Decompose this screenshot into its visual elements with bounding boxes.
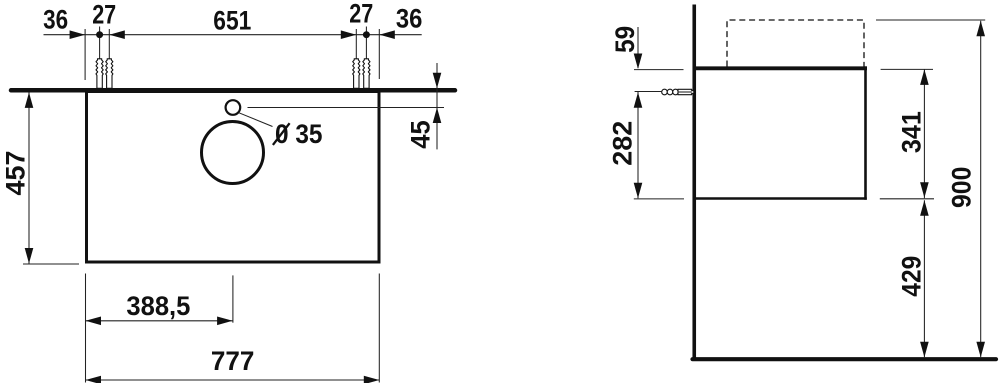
extension line dowel 3 bbox=[355, 29, 357, 77]
wall dowel rings bbox=[662, 89, 668, 95]
arrow 45 top bbox=[433, 73, 442, 89]
extension line left cabinet edge bbox=[84, 29, 86, 80]
ext line cabinet bottom left (side view) bbox=[634, 198, 684, 200]
dowel 3 (wall plug, front view) bbox=[353, 59, 360, 89]
cabinet right edge (side view) bbox=[864, 66, 867, 199]
cabinet bottom (side view) bbox=[696, 197, 867, 200]
dimension 900 line bbox=[980, 21, 982, 358]
arrow 45 bottom bbox=[433, 108, 442, 124]
svg-text:36: 36 bbox=[396, 4, 423, 34]
arrow at left edge (dim 36) bbox=[70, 30, 86, 39]
dimension 282 line bbox=[637, 92, 639, 199]
faucet hole circle bbox=[226, 100, 241, 115]
top dimension line bbox=[44, 34, 422, 36]
svg-text:36: 36 bbox=[43, 5, 68, 35]
arrow 457 bottom bbox=[25, 248, 34, 264]
svg-text:429: 429 bbox=[896, 256, 926, 297]
dashed washbasin outline bbox=[727, 20, 864, 67]
wall dowel tip bbox=[692, 90, 695, 94]
ext line 900 top bbox=[876, 19, 985, 21]
cabinet top (side view) bbox=[696, 66, 868, 70]
svg-text:777: 777 bbox=[211, 346, 255, 376]
leader line to diameter label bbox=[239, 113, 273, 127]
ref line cabinet top level bbox=[634, 69, 684, 71]
bottom extension line left bbox=[85, 274, 87, 383]
dimension 777 line bbox=[86, 379, 380, 381]
arrow left end of 651 bbox=[109, 30, 125, 39]
dowel 1 (wall plug, front view) bbox=[96, 59, 103, 89]
arrow 388,5 left bbox=[86, 317, 102, 326]
worktop slab (front view) bbox=[11, 88, 455, 93]
tick cabinet bottom right bbox=[880, 198, 934, 200]
wall dowel body bbox=[678, 89, 692, 94]
tick cabinet top right bbox=[881, 68, 933, 70]
extension line dowel 1 bbox=[99, 27, 101, 78]
arrow 457 top bbox=[25, 92, 34, 108]
arrow 282 up bbox=[634, 92, 643, 108]
svg-text:457: 457 bbox=[1, 151, 31, 196]
svg-text:341: 341 bbox=[896, 111, 926, 153]
extension line dowel 2 bbox=[108, 29, 110, 77]
wall line (side view) bbox=[692, 5, 696, 361]
dowel 2 (wall plug, front view) bbox=[106, 59, 113, 89]
floor line bbox=[693, 357, 997, 361]
arrow 900 up bbox=[976, 21, 985, 37]
arrow 59 down bbox=[634, 54, 643, 70]
svg-text:27: 27 bbox=[349, 0, 373, 29]
svg-text:900: 900 bbox=[947, 167, 977, 209]
dimension 429 line bbox=[923, 200, 925, 357]
svg-text:282: 282 bbox=[608, 121, 638, 166]
arrow 777 left bbox=[86, 376, 102, 383]
svg-text:388,5: 388,5 bbox=[126, 291, 190, 321]
drain hole circle bbox=[202, 122, 264, 184]
dimension 341 line bbox=[923, 69, 925, 198]
dimension 59 line bbox=[637, 27, 639, 68]
dimension 457 line bbox=[28, 92, 30, 263]
extension line dowel 4 bbox=[365, 27, 367, 78]
dimension dot dowel 1 bbox=[96, 31, 103, 38]
svg-text:45: 45 bbox=[406, 120, 436, 149]
arrow 282 down bbox=[634, 183, 643, 199]
wall dowel centerline bbox=[678, 91, 694, 93]
arrow right end of 651 bbox=[341, 30, 357, 39]
tick cabinet bottom left bbox=[23, 263, 79, 265]
svg-text:27: 27 bbox=[92, 0, 116, 29]
arrow 777 right bbox=[364, 376, 380, 383]
arrow at right edge (dim 36) bbox=[379, 30, 395, 39]
dimension 388,5 line bbox=[86, 320, 233, 322]
arrow 341 up bbox=[920, 69, 929, 85]
arrow 429 up bbox=[920, 200, 929, 216]
cabinet body (front view) bbox=[87, 92, 380, 263]
svg-text:59: 59 bbox=[610, 26, 640, 53]
arrow 341 down bbox=[920, 182, 929, 198]
svg-text:651: 651 bbox=[213, 5, 251, 35]
bottom extension line right bbox=[378, 274, 380, 383]
faucet hole center line bbox=[248, 107, 445, 109]
dimension 45 line bbox=[436, 63, 438, 149]
arrow 900 down bbox=[976, 342, 985, 358]
ref line dowel level bbox=[635, 91, 662, 93]
arrow 429 down bbox=[920, 342, 929, 358]
arrow 388,5 right bbox=[217, 317, 233, 326]
extension line right cabinet edge bbox=[378, 29, 380, 79]
dowel 4 (wall plug, front view) bbox=[363, 59, 370, 89]
bottom extension line center bbox=[232, 275, 234, 322]
dimension dot dowel 4 bbox=[363, 31, 370, 38]
